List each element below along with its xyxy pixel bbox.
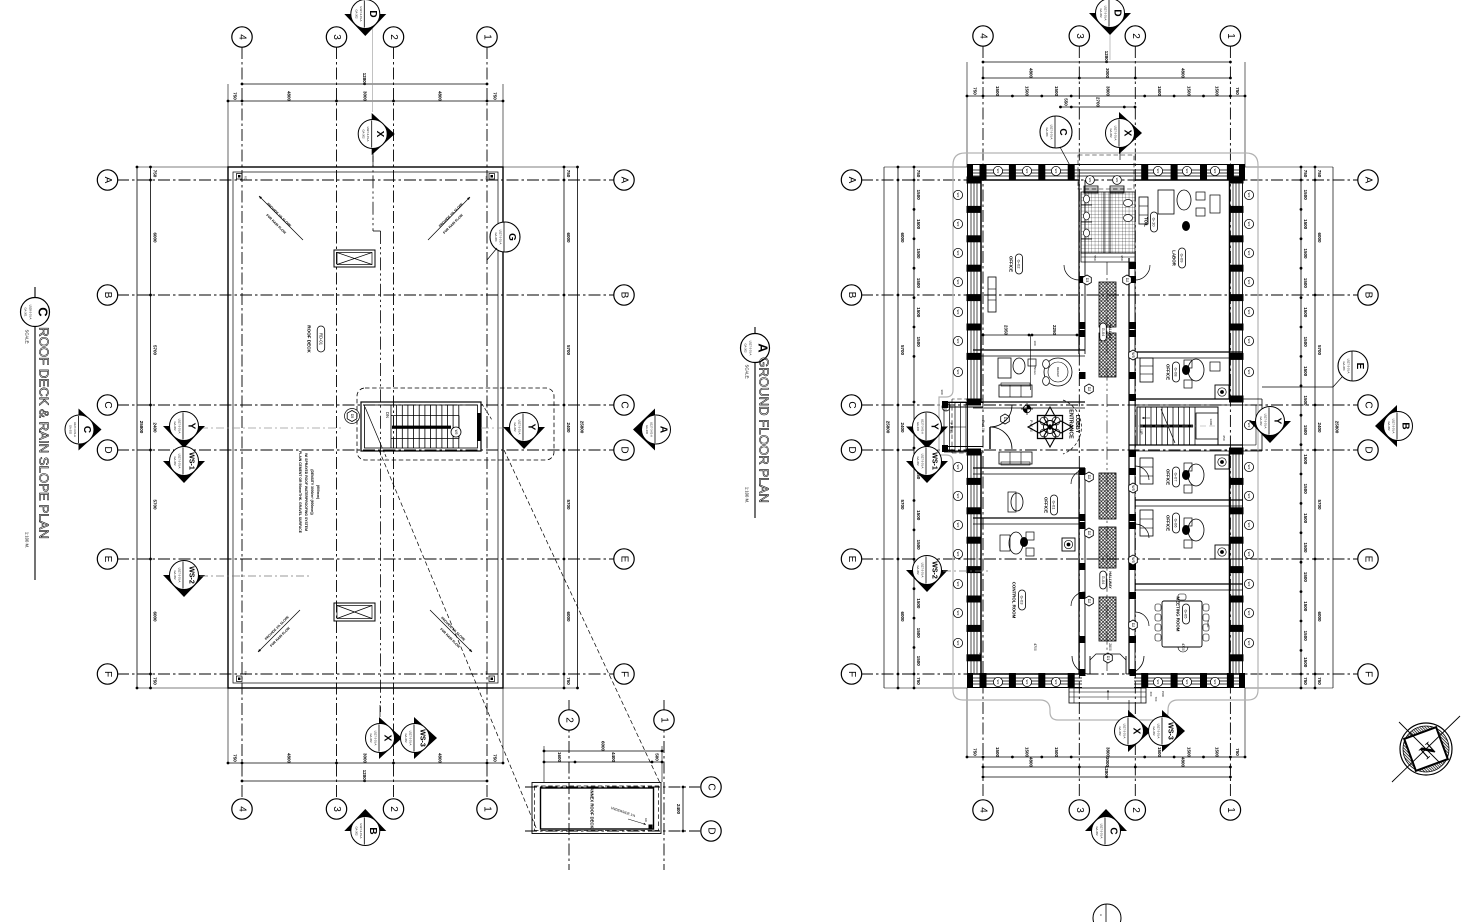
detail dims 1600/4400/500 (544, 761, 662, 763)
svg-text:F: F (1363, 671, 1374, 677)
svg-text:1500: 1500 (1303, 278, 1308, 289)
section marker Y right (roof plan) (503, 427, 545, 449)
svg-text:600: 600 (1149, 692, 1153, 697)
svg-text:6000: 6000 (601, 741, 606, 752)
svg-text:6000: 6000 (1317, 232, 1322, 243)
svg-text:3000: 3000 (1105, 68, 1110, 79)
labor room furniture (1139, 197, 1148, 224)
svg-text:U127-3-01-A: U127-3-01-A (1392, 419, 1396, 434)
svg-text:25800: 25800 (886, 421, 891, 434)
svg-text:1500: 1500 (1303, 657, 1308, 668)
svg-text:D: D (619, 446, 630, 453)
svg-text:W2: W2 (1247, 611, 1251, 616)
left dim rows (ground plan) (897, 167, 899, 688)
svg-text:GA-302: GA-302 (1109, 129, 1113, 138)
svg-text:750: 750 (973, 87, 978, 95)
svg-text:RD: RD (244, 176, 248, 180)
svg-text:W2: W2 (1247, 582, 1251, 587)
svg-text:1500: 1500 (1054, 747, 1059, 758)
svg-text:GA-302: GA-302 (404, 734, 408, 743)
svg-text:D2: D2 (1131, 623, 1135, 628)
detail dim 2400 right (682, 787, 684, 831)
grid row line F (ground plan) (861, 673, 1358, 675)
roof deck outline outer wall (228, 167, 503, 688)
entrance porch steps (left side) (943, 402, 945, 452)
grid column line 2 (ground plan) (1134, 46, 1136, 799)
svg-text:W2: W2 (1054, 680, 1058, 685)
svg-text:W2: W2 (956, 251, 960, 256)
svg-text:12800: 12800 (1104, 766, 1109, 779)
section marker D top (ground plan) (1089, 13, 1131, 35)
svg-text:2400: 2400 (566, 422, 571, 433)
left total 25800 (ground plan) (883, 167, 885, 688)
roof deck outline inner parapet line (233, 172, 498, 683)
fire extinguisher box right A (1215, 385, 1229, 399)
svg-text:E: E (1363, 556, 1374, 563)
svg-text:D: D (367, 10, 378, 17)
svg-text:U127-3-01-A: U127-3-01-A (73, 422, 77, 437)
svg-text:W2: W2 (1054, 169, 1058, 174)
meeting room table with chairs (1162, 601, 1202, 647)
grid row line B (ground plan) (861, 294, 1358, 296)
grid column line 4 (ground plan) (982, 46, 984, 799)
detail bubble D (701, 821, 721, 841)
section marker D top (roof plan) (344, 14, 386, 36)
section marker WS-3 bottom (ground plan) (1162, 710, 1185, 752)
svg-text:750: 750 (973, 748, 978, 756)
roof stair section slash (365, 407, 381, 445)
projection line to detail (left) (379, 450, 537, 830)
svg-text:1500: 1500 (916, 190, 921, 201)
section marker WS-2 left (ground plan) (906, 570, 948, 592)
left bank partition wall y518 (office/control) (973, 517, 1085, 519)
svg-text:GA-302: GA-302 (354, 827, 358, 836)
svg-text:GA-302: GA-302 (744, 344, 748, 353)
corridor wall door-jamb piers (black) (1079, 276, 1086, 283)
grid row line E (ground plan) (861, 558, 1358, 560)
svg-text:W2: W2 (956, 339, 960, 344)
svg-text:X: X (1131, 728, 1142, 735)
svg-text:4800: 4800 (1180, 68, 1185, 79)
fire extinguisher box right B (1215, 455, 1229, 469)
svg-text:2250: 2250 (1052, 325, 1057, 336)
grid bubbles right (roof plan) A-F (614, 170, 634, 190)
svg-text:D: D (102, 446, 113, 453)
svg-text:B: B (1400, 422, 1411, 429)
svg-text:U127-3-01-A: U127-3-01-A (374, 731, 378, 746)
svg-text:750: 750 (1303, 170, 1308, 178)
grid row line B (roof plan) (117, 294, 614, 296)
svg-text:1500: 1500 (1303, 337, 1308, 348)
svg-text:W2: W2 (1025, 169, 1029, 174)
svg-text:3: 3 (1074, 33, 1085, 39)
svg-text:D2: D2 (1087, 387, 1091, 392)
svg-text:OFFICE: OFFICE (1166, 515, 1171, 531)
svg-text:W2: W2 (1247, 280, 1251, 285)
right dim windows (ground plan) (1300, 167, 1302, 688)
top dim 4800/3000/4800 (ground plan) (983, 77, 1230, 79)
svg-text:1500: 1500 (1303, 513, 1308, 524)
svg-text:G-06: G-06 (1174, 519, 1179, 529)
svg-text:W2: W2 (956, 310, 960, 315)
grid column line 4 (roof plan) (241, 47, 243, 798)
grid bubbles bottom (ground plan) (973, 800, 993, 820)
svg-text:D: D (706, 827, 717, 834)
svg-text:650: 650 (1222, 435, 1226, 440)
entrance porch side walls (944, 402, 983, 404)
section marker C bottom (ground plan) (1085, 809, 1127, 831)
svg-text:W2: W2 (1247, 465, 1251, 470)
top dimension line 12800 (roof plan) (242, 83, 487, 85)
svg-text:W2: W2 (1247, 523, 1251, 528)
exit door bottom with arcs (1104, 653, 1113, 663)
svg-text:W2: W2 (1247, 641, 1251, 646)
svg-text:1: 1 (1225, 807, 1236, 813)
section marker X bottom (ground plan) (1128, 700, 1130, 712)
svg-text:U127-3-01-A: U127-3-01-A (650, 422, 654, 437)
right bank partition wall y500 (G-07/G-06) (1135, 499, 1243, 501)
stair (ground plan) (1137, 407, 1218, 445)
svg-text:A: A (756, 343, 771, 353)
svg-text:(DENSITY 3000/m² (600mm)): (DENSITY 3000/m² (600mm)) (310, 469, 314, 514)
detail grid row C (525, 786, 700, 788)
svg-text:W2: W2 (996, 680, 1000, 685)
svg-text:WS-1: WS-1 (931, 452, 938, 470)
svg-text:W2: W2 (1247, 310, 1251, 315)
svg-text:W2: W2 (1247, 552, 1251, 557)
svg-text:U127-3-01-A: U127-3-01-A (1104, 6, 1108, 21)
svg-text:G-04: G-04 (1101, 576, 1105, 584)
svg-text:3800: 3800 (1106, 747, 1111, 758)
annex room right (stair annex) (1243, 398, 1262, 400)
svg-text:E: E (846, 556, 857, 563)
svg-text:3: 3 (331, 34, 342, 40)
W2 window labels right wall (1244, 190, 1253, 199)
svg-text:550: 550 (1063, 98, 1068, 106)
section marker X top (ground plan) (1119, 148, 1121, 160)
grid row line F (roof plan) (117, 673, 614, 675)
svg-text:D1: D1 (1106, 656, 1110, 661)
svg-text:W2: W2 (956, 494, 960, 499)
svg-text:1:100 M.: 1:100 M. (25, 532, 30, 548)
svg-text:SCALE:: SCALE: (745, 365, 750, 380)
detail bubble C (701, 777, 721, 797)
svg-text:OFFICE: OFFICE (1044, 497, 1049, 513)
svg-text:Y: Y (186, 423, 197, 430)
roof stair stringer lines (391, 415, 459, 417)
svg-text:750: 750 (1235, 748, 1240, 756)
svg-text:6000: 6000 (566, 611, 571, 622)
svg-text:GA-301: GA-301 (24, 308, 28, 317)
svg-text:G-05: G-05 (1184, 610, 1189, 620)
svg-text:1500: 1500 (995, 86, 1000, 97)
svg-text:2: 2 (388, 34, 399, 40)
svg-text:WS-1: WS-1 (188, 452, 195, 470)
svg-text:B: B (102, 292, 113, 299)
svg-text:ANNEX ROOF DECK: ANNEX ROOF DECK (590, 788, 595, 829)
svg-text:GA-302: GA-302 (916, 422, 920, 431)
section marker Y right (ground plan) (1249, 421, 1291, 443)
svg-text:5700: 5700 (566, 345, 571, 356)
svg-text:CONTROL ROOM: CONTROL ROOM (1012, 582, 1017, 619)
svg-text:A: A (658, 426, 669, 433)
svg-text:GA-302: GA-302 (916, 457, 920, 466)
svg-text:1500: 1500 (916, 219, 921, 230)
svg-text:D2: D2 (1087, 531, 1091, 536)
north arrow symbol (1392, 716, 1460, 782)
grid row line A (roof plan) (117, 179, 614, 181)
detail callout E leader (1262, 386, 1333, 388)
section marker B bottom (roof plan) (344, 809, 386, 831)
left dim windows (ground plan) (913, 167, 915, 688)
svg-text:W2: W2 (956, 193, 960, 198)
svg-text:C: C (619, 401, 630, 408)
svg-text:W2: W2 (1247, 251, 1251, 256)
svg-text:1500: 1500 (1161, 691, 1165, 698)
svg-text:250mm: 250mm (1033, 365, 1037, 375)
svg-text:C: C (1057, 128, 1068, 135)
svg-text:6000: 6000 (153, 611, 158, 622)
svg-text:A: A (1099, 914, 1103, 916)
svg-text:W5: W5 (1131, 352, 1135, 357)
svg-text:1500: 1500 (916, 278, 921, 289)
svg-text:1500: 1500 (916, 656, 921, 667)
svg-text:U127-3-01-A: U127-3-01-A (499, 230, 503, 245)
svg-text:1500: 1500 (1303, 484, 1308, 495)
svg-text:4800: 4800 (287, 91, 292, 102)
svg-text:GA-302: GA-302 (1118, 727, 1122, 736)
svg-text:GA-302: GA-302 (173, 422, 177, 431)
svg-text:1500: 1500 (1303, 395, 1308, 406)
slope arrow bottom-left (258, 610, 300, 652)
svg-text:1: 1 (1225, 33, 1236, 39)
svg-text:750: 750 (566, 677, 571, 685)
svg-text:W5: W5 (454, 430, 458, 435)
svg-text:E: E (619, 556, 630, 563)
svg-text:2400: 2400 (153, 422, 158, 433)
svg-text:D5: D5 (350, 414, 354, 419)
svg-text:D: D (1112, 9, 1123, 16)
svg-text:1500: 1500 (916, 540, 921, 551)
top dim 12800 (ground plan) (983, 61, 1230, 63)
svg-text:A: A (846, 177, 857, 184)
entrance up arrow (950, 426, 966, 428)
grid row line A (ground plan) (861, 179, 1358, 181)
svg-text:750: 750 (1317, 170, 1322, 178)
svg-text:WS-3: WS-3 (419, 729, 426, 747)
section marker WS-1 left (roof plan) (163, 461, 205, 483)
svg-text:GA-302: GA-302 (173, 571, 177, 580)
svg-text:U127-3-01-A: U127-3-01-A (1050, 125, 1054, 140)
svg-text:1500: 1500 (1054, 86, 1059, 97)
svg-text:G-04: G-04 (1101, 328, 1105, 336)
svg-text:ROOF DECK: ROOF DECK (307, 325, 312, 353)
svg-text:4800: 4800 (1029, 68, 1034, 79)
svg-text:100: 100 (1033, 340, 1037, 345)
svg-text:F: F (619, 671, 630, 677)
section marker Y left (roof plan) (163, 426, 205, 448)
ground floor top exterior wall (row A side) with window piers (967, 164, 1245, 166)
svg-text:750: 750 (153, 170, 158, 178)
exit porch steps bottom (1069, 688, 1146, 703)
svg-text:W2: W2 (956, 370, 960, 375)
stair door tag D5 (347, 411, 357, 422)
grid bubbles top (ground plan) (973, 26, 993, 46)
svg-text:5700: 5700 (153, 499, 158, 510)
svg-text:W3: W3 (1088, 178, 1092, 183)
grid bubbles right (ground plan) A-F (1358, 170, 1378, 190)
svg-text:MEETING ROOM: MEETING ROOM (1176, 597, 1181, 632)
svg-text:W2: W2 (1247, 370, 1251, 375)
lobby wall lower y468-474 (973, 467, 1085, 469)
svg-text:C: C (36, 307, 51, 317)
svg-text:U127-3-01-A: U127-3-01-A (1264, 414, 1268, 429)
svg-text:W3: W3 (1115, 178, 1119, 183)
detail grid line 2 (568, 700, 570, 870)
svg-text:2350: 2350 (1004, 325, 1009, 336)
svg-text:C: C (1363, 401, 1374, 408)
slope arrow top-right (428, 197, 470, 240)
upper-left office dims 2350/100/2250 (983, 334, 1077, 336)
svg-text:2: 2 (1130, 807, 1141, 813)
section marker X bottom (roof plan) (379, 705, 381, 717)
svg-text:750: 750 (493, 754, 498, 762)
svg-text:1500: 1500 (916, 628, 921, 639)
stair section line (gray dash) (200, 427, 344, 429)
toilet threshold (1081, 253, 1135, 262)
detail bubble 2 (559, 710, 579, 730)
svg-text:C: C (846, 401, 857, 408)
svg-text:U127-3-01-A: U127-3-01-A (178, 568, 182, 583)
entrance door D1 and arcs (1001, 414, 1010, 424)
reception desk lower (1011, 493, 1023, 511)
svg-text:4: 4 (978, 33, 989, 39)
svg-text:RD-01: RD-01 (319, 333, 324, 346)
svg-text:RD: RD (485, 176, 489, 180)
svg-text:GA-302: GA-302 (1152, 727, 1156, 736)
section marker B right (ground plan) (1375, 405, 1397, 447)
svg-text:G-02: G-02 (1017, 260, 1022, 270)
svg-text:A: A (1363, 177, 1374, 184)
hallway door tags (1083, 275, 1092, 285)
svg-text:GA-304: GA-304 (1045, 128, 1049, 137)
svg-text:GA-302: GA-302 (369, 734, 373, 743)
svg-text:1500: 1500 (1186, 747, 1191, 758)
grid row line D (ground plan) (861, 449, 1358, 451)
svg-text:4700: 4700 (1033, 643, 1037, 651)
svg-text:G-08: G-08 (1174, 368, 1179, 378)
svg-text:A: A (102, 177, 113, 184)
upper-left office couch at west wall (988, 277, 996, 312)
svg-text:C: C (1108, 827, 1119, 834)
svg-text:B: B (367, 827, 378, 834)
svg-text:G-10: G-10 (1152, 218, 1157, 228)
svg-text:U127-3-01-A: U127-3-01-A (921, 419, 925, 434)
roof drain top-left with RD mark (237, 174, 243, 180)
grid row line D (roof plan) (117, 449, 614, 451)
section marker WS-1 left (ground plan) (906, 461, 948, 483)
stair dashed projection (1137, 425, 1218, 427)
hallway floor hatch segments (1099, 282, 1116, 327)
mid office furniture (1009, 532, 1023, 554)
svg-text:U127-3-01-A: U127-3-01-A (749, 341, 753, 356)
svg-text:750: 750 (493, 92, 498, 100)
svg-text:ENTRANCE: ENTRANCE (1068, 409, 1074, 439)
svg-text:750: 750 (916, 677, 921, 685)
grid bubbles bottom (roof plan) 4 3 2 1 (232, 799, 252, 819)
svg-text:U127-3-01-A: U127-3-01-A (366, 127, 370, 142)
svg-text:12800: 12800 (362, 73, 367, 86)
svg-text:3000: 3000 (363, 91, 368, 102)
bottom dimension line 12800 (roof plan) (242, 780, 487, 782)
top dim windows 750/1500x3/3800/1500x3/750 (ground plan) (967, 95, 1245, 97)
hallway centerline (1106, 262, 1108, 674)
entrance inner door dashed swing (1063, 400, 1081, 454)
svg-text:2400: 2400 (1317, 422, 1322, 433)
svg-text:W2: W2 (1247, 222, 1251, 227)
svg-text:12800: 12800 (362, 770, 367, 783)
roof drain bottom-left (237, 676, 243, 682)
svg-text:1500: 1500 (1025, 747, 1030, 758)
detail bubble 1 (654, 710, 674, 730)
svg-text:U127-3-01-A: U127-3-01-A (359, 824, 363, 839)
svg-text:GA-302: GA-302 (645, 425, 649, 434)
svg-text:SCALE:: SCALE: (25, 330, 30, 345)
svg-text:750: 750 (1317, 677, 1322, 685)
svg-text:P ±0.00: P ±0.00 (981, 420, 985, 432)
svg-text:D3: D3 (1085, 278, 1089, 283)
svg-text:1500: 1500 (1303, 454, 1308, 465)
right dimension line rows (roof plan) (563, 167, 565, 688)
svg-text:D: D (846, 446, 857, 453)
svg-text:1500: 1500 (1303, 631, 1308, 642)
ground stair section slash (1161, 409, 1175, 443)
svg-text:U127-3-01-A: U127-3-01-A (921, 563, 925, 578)
svg-text:W2: W2 (956, 222, 960, 227)
svg-text:1: 1 (482, 806, 493, 812)
slope arrow top-left with note PROVIDE 1% SLOPE FOR RAIN FLOW (259, 196, 303, 240)
svg-text:5700: 5700 (566, 499, 571, 510)
grid column line 3 (ground plan) (1078, 46, 1080, 799)
svg-text:1500: 1500 (1303, 425, 1308, 436)
stair enclosure dashed outline (annex roof below) (357, 388, 554, 460)
svg-text:OFFICE: OFFICE (1166, 364, 1171, 380)
grid row line C (roof plan) (117, 404, 614, 406)
fire extinguisher box mid-left (1062, 538, 1075, 551)
svg-text:HALLWAY: HALLWAY (1108, 323, 1112, 341)
svg-text:4800: 4800 (1029, 757, 1034, 768)
stair window tag W5 (451, 427, 461, 437)
detail grid row D (525, 830, 700, 832)
svg-text:X: X (382, 735, 393, 742)
svg-text:5700: 5700 (1317, 499, 1322, 510)
svg-text:C: C (81, 426, 92, 433)
svg-text:W2: W2 (1156, 169, 1160, 174)
svg-text:2800: 2800 (1108, 643, 1112, 651)
svg-text:E: E (1354, 363, 1365, 370)
interior corridor walls (ground plan) (1078, 180, 1080, 354)
projection line to detail (right) (504, 450, 660, 783)
right dim rows (ground plan) (1314, 167, 1316, 688)
svg-text:G-01: G-01 (1052, 501, 1057, 511)
svg-text:W2: W2 (1247, 339, 1251, 344)
svg-text:5700: 5700 (900, 499, 905, 510)
svg-text:RD: RD (244, 671, 248, 675)
svg-text:1500: 1500 (1186, 86, 1191, 97)
svg-text:G-09: G-09 (1180, 254, 1185, 264)
svg-text:GA-302: GA-302 (354, 10, 358, 19)
svg-text:LABOR: LABOR (1172, 250, 1177, 266)
